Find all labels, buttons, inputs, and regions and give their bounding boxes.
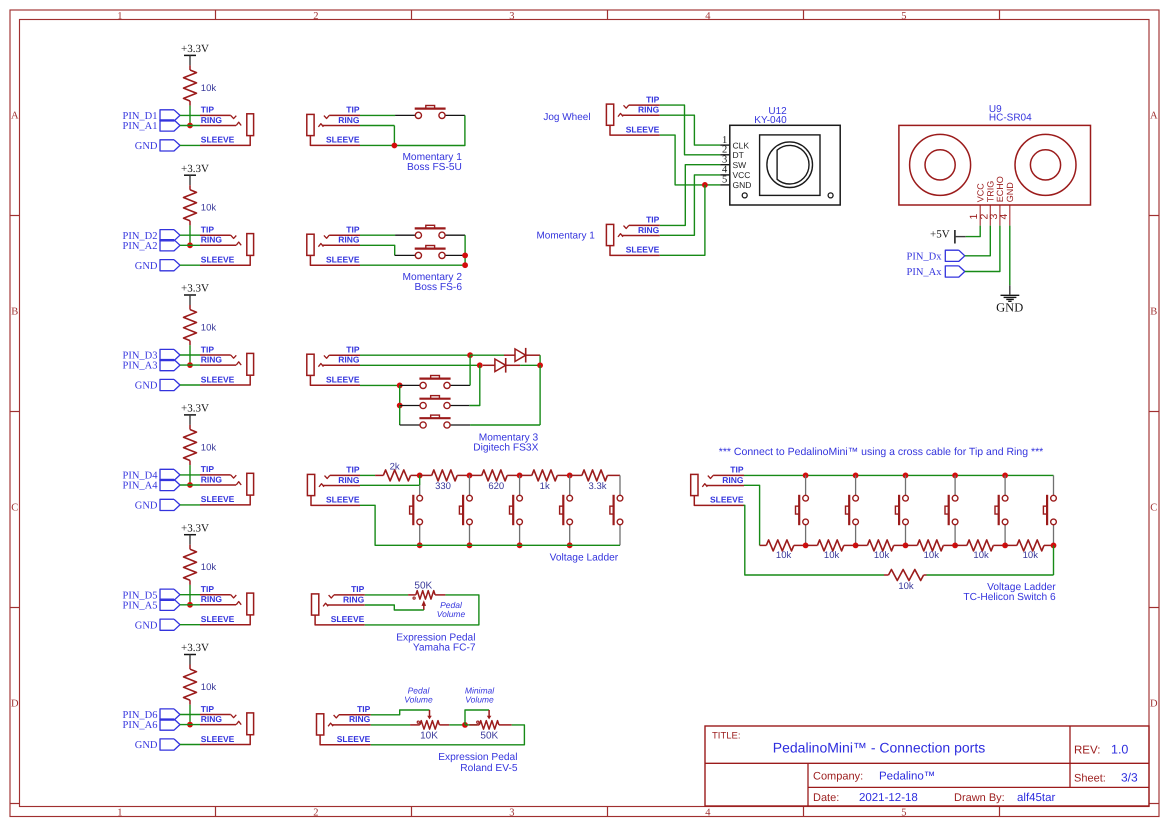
wire GND to jack SLEEVE (block 5) xyxy=(180,624,200,626)
jack connector (Momentary 1) xyxy=(307,114,314,135)
svg-text:3: 3 xyxy=(509,11,514,22)
junction on RING (block 1) xyxy=(187,123,193,129)
svg-text:SLEEVE: SLEEVE xyxy=(326,495,360,505)
svg-text:SLEEVE: SLEEVE xyxy=(201,734,235,744)
pin 3 ECHO (U9) xyxy=(999,205,1001,226)
junction TIP 3 (TC-Helicon) xyxy=(903,473,909,479)
wire button to SLEEVE (Momentary 1) xyxy=(394,115,465,145)
wire TIP (Momentary 3) xyxy=(360,354,470,356)
wire button1 up to TIP (Momentary 3) xyxy=(469,355,471,385)
resistor 10k #2 (TC-Helicon) xyxy=(806,544,818,546)
resistor 10k #4 (TC-Helicon) xyxy=(906,544,918,546)
junction RING (Momentary 3) xyxy=(477,362,483,368)
wire SLEEVE (Momentary 1) xyxy=(360,144,394,146)
net flag PIN_A1 xyxy=(160,120,180,131)
svg-text:Volume: Volume xyxy=(404,694,433,704)
svg-text:TRIG: TRIG xyxy=(986,181,996,203)
net flag GND (block 5) xyxy=(160,619,180,630)
junction (EV-5) xyxy=(462,722,468,728)
svg-text:10k: 10k xyxy=(898,581,914,592)
svg-text:GND: GND xyxy=(135,381,158,392)
svg-text:Sheet:: Sheet: xyxy=(1074,773,1106,785)
transducer left (U9) xyxy=(910,134,971,195)
wire TIP to pot (FC-7) xyxy=(365,594,408,596)
junction TIP 1 (TC-Helicon) xyxy=(803,473,809,479)
button 3 pins (Momentary 3) xyxy=(400,424,420,426)
wire left bus to button 3 (Momentary 3) xyxy=(399,406,401,426)
push button S2 (Voltage Ladder) (vertical) xyxy=(469,475,471,495)
diode D1 (Momentary 3) xyxy=(483,364,495,366)
pin 5 GND (KY-040) xyxy=(720,184,730,186)
pin 4 VCC (KY-040) xyxy=(720,174,730,176)
push button S2 (Momentary 2) xyxy=(415,248,446,250)
junction rail 1 (Voltage Ladder) xyxy=(417,542,423,548)
svg-text:4: 4 xyxy=(998,214,1010,220)
wire RING down (Momentary 1) xyxy=(360,125,394,127)
junction on RING (block 3) xyxy=(187,362,193,368)
svg-text:330: 330 xyxy=(435,481,451,492)
net flag PIN_A3 xyxy=(160,360,180,371)
svg-text:1: 1 xyxy=(117,807,122,818)
push button S5 (TC-Helicon) (vertical) xyxy=(1004,475,1006,495)
resistor 330 (Voltage Ladder) xyxy=(420,474,432,476)
wire bottom rail (Voltage Ladder) xyxy=(420,544,620,546)
net flag PIN_D3 xyxy=(160,349,180,360)
svg-text:GND: GND xyxy=(135,141,158,152)
svg-text:RING: RING xyxy=(201,714,223,724)
svg-text:*** Connect to PedalinoMini™ u: *** Connect to PedalinoMini™ using a cro… xyxy=(719,446,1044,458)
jack connector (TC-Helicon) xyxy=(691,474,698,495)
svg-text:Volume: Volume xyxy=(437,609,466,619)
svg-text:10k: 10k xyxy=(874,550,890,561)
svg-text:3: 3 xyxy=(509,807,514,818)
wire GND junction to pin (KY-040) xyxy=(705,184,720,186)
jack connector J6 (TRS socket) xyxy=(200,714,231,716)
svg-text:PIN_Dx: PIN_Dx xyxy=(906,251,942,262)
resistor 2k (Voltage Ladder) xyxy=(375,474,383,476)
junction chain 2 (Voltage Ladder) xyxy=(467,473,473,479)
resistor 10k bottom (TC-Helicon) xyxy=(924,574,927,576)
svg-text:Pedalino™: Pedalino™ xyxy=(879,771,935,783)
wire Jog SLEEVE to KY-040 GND xyxy=(660,135,705,185)
svg-text:620: 620 xyxy=(488,481,504,492)
svg-text:SLEEVE: SLEEVE xyxy=(626,124,660,134)
svg-text:Momentary 1: Momentary 1 xyxy=(536,231,595,242)
resistor 10k #3 (TC-Helicon) xyxy=(856,544,868,546)
svg-text:10k: 10k xyxy=(201,442,217,453)
svg-text:PIN_A2: PIN_A2 xyxy=(122,241,157,252)
svg-text:10k: 10k xyxy=(776,550,792,561)
potentiometer 50K (FC-7) xyxy=(408,594,416,596)
wire right side down (TC-Helicon) xyxy=(1053,545,1055,575)
push button S1 (TC-Helicon) (vertical) xyxy=(805,475,807,495)
resistor 10k pull-up (block 2) xyxy=(189,185,191,190)
ground symbol GND (U9) xyxy=(1009,285,1011,294)
wire button2 up to RING (Momentary 3) xyxy=(469,365,480,405)
jack connector (Yamaha FC-7) xyxy=(312,594,319,615)
pin 3 SW (KY-040) xyxy=(720,164,730,166)
wire PIN_D5 to jack TIP xyxy=(180,594,200,596)
jack connector (Momentary 3) xyxy=(307,354,314,375)
wire TIP to 10K wiper (EV-5) xyxy=(371,710,430,715)
wire RING to 10K pot (EV-5) xyxy=(371,724,410,726)
svg-text:Company:: Company: xyxy=(813,771,863,783)
wire from resistor to RING net (block 4) xyxy=(189,465,191,485)
junction rail end (TC-Helicon) xyxy=(1051,543,1057,549)
resistor 10k pull-up (block 5) xyxy=(189,545,191,550)
svg-text:TIP: TIP xyxy=(346,105,360,115)
wire PIN_A2 to jack RING xyxy=(180,244,200,246)
pin 2 TRIG (U9) xyxy=(989,205,991,226)
push button S1 (Momentary 1) xyxy=(415,107,446,109)
svg-text:Expression Pedal: Expression Pedal xyxy=(438,752,517,763)
junction TIP 4 (TC-Helicon) xyxy=(952,473,958,479)
svg-text:TIP: TIP xyxy=(646,94,660,104)
svg-text:TIP: TIP xyxy=(346,345,360,355)
junction button B / bus (Momentary 2) xyxy=(462,253,468,259)
wire pot to right side (FC-7) xyxy=(365,595,479,625)
svg-text:4: 4 xyxy=(705,807,711,818)
svg-text:TIP: TIP xyxy=(201,584,215,594)
wire from resistor to RING net (block 2) xyxy=(189,225,191,245)
svg-text:CLK: CLK xyxy=(733,140,750,150)
svg-text:1: 1 xyxy=(117,11,122,22)
svg-text:10k: 10k xyxy=(201,562,217,573)
push button S1 (Momentary 3) xyxy=(419,378,450,380)
wire GND to jack SLEEVE (block 6) xyxy=(180,744,200,746)
junction on RING (block 5) xyxy=(187,602,193,608)
svg-text:5: 5 xyxy=(722,175,727,186)
svg-text:TC-Helicon Switch 6: TC-Helicon Switch 6 xyxy=(963,592,1056,603)
svg-text:VCC: VCC xyxy=(976,183,986,203)
junction on RING (block 2) xyxy=(187,242,193,248)
svg-text:3/3: 3/3 xyxy=(1121,771,1138,785)
junction on RING (block 4) xyxy=(187,482,193,488)
push button S1 (Momentary 2) xyxy=(415,227,446,229)
wire Momentary TIP to KY-040 SW xyxy=(660,165,720,226)
net flag PIN_Ax xyxy=(945,266,965,277)
push button S4 (TC-Helicon) (vertical) xyxy=(954,475,956,495)
svg-text:TITLE:: TITLE: xyxy=(712,731,741,742)
button B pins (Momentary 2) xyxy=(395,254,416,256)
junction rail 5 (TC-Helicon) xyxy=(1002,543,1008,549)
svg-text:PIN_A3: PIN_A3 xyxy=(122,361,157,372)
wire Jog RING to KY-040 CLK xyxy=(660,115,720,145)
wire 50K to SLEEVE (EV-5) xyxy=(371,725,525,745)
svg-text:TIP: TIP xyxy=(346,225,360,235)
svg-text:Roland EV-5: Roland EV-5 xyxy=(460,763,518,774)
net flag PIN_Dx xyxy=(945,250,965,261)
wire PIN_D6 to jack TIP xyxy=(180,714,200,716)
svg-text:SLEEVE: SLEEVE xyxy=(326,255,360,265)
wire PIN_A4 to jack RING xyxy=(180,484,200,486)
wire junction to 50K wiper (EV-5) xyxy=(465,710,489,725)
svg-text:10k: 10k xyxy=(201,83,217,94)
svg-text:GND: GND xyxy=(135,261,158,272)
jack connector (Momentary 1 (KY-040)) xyxy=(606,224,613,245)
wire GND to jack SLEEVE (block 4) xyxy=(180,504,200,506)
svg-text:SLEEVE: SLEEVE xyxy=(626,245,660,255)
wire from resistor to RING net (block 6) xyxy=(189,705,191,725)
junction SLEEVE / bus (Momentary 2) xyxy=(462,262,468,268)
net flag PIN_A6 xyxy=(160,719,180,730)
svg-text:SLEEVE: SLEEVE xyxy=(710,495,744,505)
resistor 3.3k (Voltage Ladder) xyxy=(570,474,582,476)
net flag GND (block 4) xyxy=(160,499,180,510)
svg-text:RING: RING xyxy=(201,235,223,245)
svg-text:ECHO: ECHO xyxy=(995,176,1005,202)
wire PIN_Ax to ECHO (U9) xyxy=(965,226,1000,272)
junction rail 1 (TC-Helicon) xyxy=(803,543,809,549)
svg-text:TIP: TIP xyxy=(201,105,215,115)
junction rail 3 (TC-Helicon) xyxy=(903,543,909,549)
button pins (Momentary 1) xyxy=(395,114,415,116)
svg-text:C: C xyxy=(1150,503,1157,514)
svg-text:TIP: TIP xyxy=(201,464,215,474)
wire TIP to diode D2 (Momentary 3) xyxy=(470,354,504,356)
net flag GND (block 2) xyxy=(160,260,180,271)
svg-text:GND: GND xyxy=(996,301,1023,315)
svg-text:10k: 10k xyxy=(824,550,840,561)
junction SLEEVE (Momentary 3) xyxy=(397,383,403,389)
svg-text:+3.3V: +3.3V xyxy=(181,403,209,415)
jack connector (Roland EV-5) xyxy=(317,714,324,735)
svg-text:REV:: REV: xyxy=(1074,745,1100,757)
svg-text:VCC: VCC xyxy=(733,170,751,180)
junction rail 2 (Voltage Ladder) xyxy=(467,542,473,548)
svg-text:SLEEVE: SLEEVE xyxy=(331,614,365,624)
svg-text:50K: 50K xyxy=(480,730,498,741)
svg-text:10k: 10k xyxy=(1023,550,1039,561)
net flag PIN_A4 xyxy=(160,479,180,490)
resistor 10k #5 (TC-Helicon) xyxy=(955,544,967,546)
wire Momentary SLEEVE to GND junction xyxy=(660,185,705,255)
svg-text:2021-12-18: 2021-12-18 xyxy=(859,792,918,804)
junction rail 4 (Voltage Ladder) xyxy=(567,542,573,548)
wire from resistor to RING net (block 1) xyxy=(189,106,191,126)
jack connector (Momentary 2) xyxy=(307,234,314,255)
svg-text:SLEEVE: SLEEVE xyxy=(326,375,360,385)
wire TIP to button A (Momentary 2) xyxy=(360,234,395,236)
wire RING (Momentary 3) xyxy=(360,364,480,366)
svg-text:2: 2 xyxy=(313,11,318,22)
svg-text:GND: GND xyxy=(733,180,752,190)
svg-text:5: 5 xyxy=(901,807,906,818)
wire bottom to SLEEVE (TC-Helicon) xyxy=(744,505,885,575)
wire RING to button B (Momentary 2) xyxy=(360,245,395,255)
svg-text:Volume: Volume xyxy=(465,694,494,704)
wire +5V to VCC (U9) xyxy=(966,226,981,237)
svg-text:GND: GND xyxy=(1005,182,1015,203)
svg-text:10k: 10k xyxy=(924,550,940,561)
wire from resistor to RING net (block 3) xyxy=(189,345,191,365)
push button S2 (TC-Helicon) (vertical) xyxy=(855,475,857,495)
svg-text:PIN_A1: PIN_A1 xyxy=(122,121,157,132)
net flag GND (block 3) xyxy=(160,379,180,390)
svg-text:SLEEVE: SLEEVE xyxy=(201,135,235,145)
wire junction to 50K (EV-5) xyxy=(465,724,477,726)
svg-text:PIN_A4: PIN_A4 xyxy=(122,481,158,492)
svg-text:+5V: +5V xyxy=(930,229,950,241)
potentiometer 10K (EV-5) xyxy=(410,724,420,726)
wire GND to jack SLEEVE (block 2) xyxy=(180,264,200,266)
wire SLEEVE (Momentary 3) xyxy=(360,384,400,386)
button 1 pins (Momentary 3) xyxy=(400,384,420,386)
jack connector J2 (TRS socket) xyxy=(200,234,231,236)
svg-text:RING: RING xyxy=(638,105,660,115)
resistor 10k #1 (TC-Helicon) xyxy=(760,544,767,546)
svg-text:DT: DT xyxy=(733,150,744,160)
svg-text:TIP: TIP xyxy=(346,465,360,475)
svg-text:D: D xyxy=(11,699,19,710)
wire from resistor to RING net (block 5) xyxy=(189,585,191,605)
junction rail 4 (TC-Helicon) xyxy=(952,543,958,549)
wire PIN_Dx to TRIG (U9) xyxy=(965,226,991,256)
push button S3 (TC-Helicon) (vertical) xyxy=(905,475,907,495)
svg-text:RING: RING xyxy=(722,475,744,485)
wire SLEEVE down (Voltage Ladder) xyxy=(360,505,420,545)
pin 4 GND (U9) xyxy=(1009,205,1011,226)
svg-text:5: 5 xyxy=(901,11,906,22)
wire TIP bus (TC-Helicon) xyxy=(744,474,1054,476)
push button S3 (Voltage Ladder) (vertical) xyxy=(519,475,521,495)
svg-text:Boss FS-6: Boss FS-6 xyxy=(414,282,462,293)
svg-text:RING: RING xyxy=(349,714,371,724)
wire PIN_A3 to jack RING xyxy=(180,364,200,366)
svg-text:2: 2 xyxy=(313,807,318,818)
svg-text:GND: GND xyxy=(135,501,158,512)
wire PIN_A6 to jack RING xyxy=(180,724,200,726)
pin 1 VCC (U9) xyxy=(979,205,981,226)
svg-text:A: A xyxy=(11,111,19,122)
svg-text:10K: 10K xyxy=(420,730,438,741)
wire Momentary RING to KY-040 VCC xyxy=(660,175,720,235)
svg-text:KY-040: KY-040 xyxy=(754,115,787,126)
push button S6 (TC-Helicon) (vertical) xyxy=(1053,475,1055,495)
svg-text:SLEEVE: SLEEVE xyxy=(201,255,235,265)
wire diode D1 to right bus (Momentary 3) xyxy=(520,364,540,366)
svg-text:TIP: TIP xyxy=(351,584,365,594)
junction (Momentary 1) xyxy=(392,143,398,149)
svg-text:B: B xyxy=(1150,307,1157,318)
svg-text:10k: 10k xyxy=(201,203,217,214)
net flag PIN_D4 xyxy=(160,469,180,480)
resistor 10k pull-up (block 3) xyxy=(189,305,191,310)
svg-text:2k: 2k xyxy=(390,461,400,472)
svg-text:SW: SW xyxy=(733,160,747,170)
jack connector J1 (TRS socket) xyxy=(200,114,231,116)
wire PIN_A5 to jack RING xyxy=(180,604,200,606)
svg-text:C: C xyxy=(11,503,18,514)
svg-text:B: B xyxy=(11,307,18,318)
svg-text:PIN_Ax: PIN_Ax xyxy=(906,267,942,278)
svg-text:Drawn By:: Drawn By: xyxy=(954,792,1005,804)
svg-text:SLEEVE: SLEEVE xyxy=(201,614,235,624)
svg-text:+3.3V: +3.3V xyxy=(181,163,209,175)
svg-text:RING: RING xyxy=(638,225,660,235)
wire GND pin down (U9) xyxy=(1009,226,1011,286)
diode D2 (Momentary 3) xyxy=(504,354,515,356)
svg-text:+3.3V: +3.3V xyxy=(181,43,209,55)
svg-text:10k: 10k xyxy=(201,682,217,693)
svg-text:TIP: TIP xyxy=(357,704,371,714)
svg-text:Date:: Date: xyxy=(813,792,839,804)
junction rail 2 (TC-Helicon) xyxy=(853,543,859,549)
module U12 KY-040 rotary encoder xyxy=(730,125,840,205)
resistor 10k pull-up (block 4) xyxy=(189,425,191,430)
junction TIP (Momentary 3) xyxy=(467,352,473,358)
svg-text:RING: RING xyxy=(338,235,360,245)
wire TIP to 2k (Voltage Ladder) xyxy=(360,474,375,476)
push button S1 (Voltage Ladder) (vertical) xyxy=(419,485,421,495)
junction TIP 5 (TC-Helicon) xyxy=(1002,473,1008,479)
junction right bus (Momentary 3) xyxy=(537,362,543,368)
svg-text:GND: GND xyxy=(135,740,158,751)
wire PIN_D3 to jack TIP xyxy=(180,354,200,356)
net flag PIN_D1 xyxy=(160,110,180,121)
svg-text:RING: RING xyxy=(201,474,223,484)
push button S5 (Voltage Ladder) (vertical) xyxy=(619,475,621,495)
push button S4 (Voltage Ladder) (vertical) xyxy=(569,475,571,495)
junction TIP 2 (TC-Helicon) xyxy=(853,473,859,479)
svg-text:RING: RING xyxy=(343,594,365,604)
jack connector (Voltage Ladder) xyxy=(307,474,314,495)
wire TIP to button (Momentary 1) xyxy=(360,114,395,116)
jack connector J3 (TRS socket) xyxy=(200,354,231,356)
junction on RING (block 6) xyxy=(187,722,193,728)
junction GND (KY-040) xyxy=(702,182,708,188)
wire Jog TIP to KY-040 DT xyxy=(660,105,720,155)
wire RING down to chain (TC-Helicon) xyxy=(744,485,760,545)
svg-text:1k: 1k xyxy=(540,481,550,492)
wire PIN_D1 to jack TIP xyxy=(180,114,200,116)
svg-text:RING: RING xyxy=(338,355,360,365)
svg-text:SLEEVE: SLEEVE xyxy=(201,494,235,504)
svg-text:GND: GND xyxy=(135,620,158,631)
net flag PIN_A5 xyxy=(160,599,180,610)
resistor 10k #6 (TC-Helicon) xyxy=(1005,544,1017,546)
junction chain 4 (Voltage Ladder) xyxy=(567,473,573,479)
push button S2 (Momentary 3) xyxy=(419,398,450,400)
net flag PIN_A2 xyxy=(160,240,180,251)
svg-text:RING: RING xyxy=(338,115,360,125)
transducer right (U9) xyxy=(1015,134,1076,195)
wire GND to jack SLEEVE (block 1) xyxy=(180,144,200,146)
svg-text:PIN_A5: PIN_A5 xyxy=(122,600,157,611)
button 2 pins (Momentary 3) xyxy=(400,405,420,407)
wire RING up to chain (Voltage Ladder) xyxy=(360,484,420,486)
svg-text:TIP: TIP xyxy=(201,704,215,714)
svg-text:+3.3V: +3.3V xyxy=(181,642,209,654)
svg-text:10k: 10k xyxy=(973,550,989,561)
push button S3 (Momentary 3) xyxy=(419,417,450,419)
svg-text:4: 4 xyxy=(705,11,711,22)
svg-text:SLEEVE: SLEEVE xyxy=(326,135,360,145)
svg-text:+3.3V: +3.3V xyxy=(181,522,209,534)
svg-text:Boss FS-5U: Boss FS-5U xyxy=(407,162,462,173)
junction left bus (Momentary 3) xyxy=(397,403,403,409)
wire right bus (Momentary 2) xyxy=(464,235,466,265)
svg-text:Digitech FS3X: Digitech FS3X xyxy=(473,442,538,453)
resistor 620 (Voltage Ladder) xyxy=(470,474,482,476)
svg-text:10k: 10k xyxy=(201,322,217,333)
junction rail 3 (Voltage Ladder) xyxy=(517,542,523,548)
svg-text:RING: RING xyxy=(201,115,223,125)
svg-text:RING: RING xyxy=(201,594,223,604)
net flag GND (block 1) xyxy=(160,140,180,151)
module U9 HC-SR04 ultrasonic sensor xyxy=(899,125,1091,205)
svg-text:RING: RING xyxy=(201,354,223,364)
